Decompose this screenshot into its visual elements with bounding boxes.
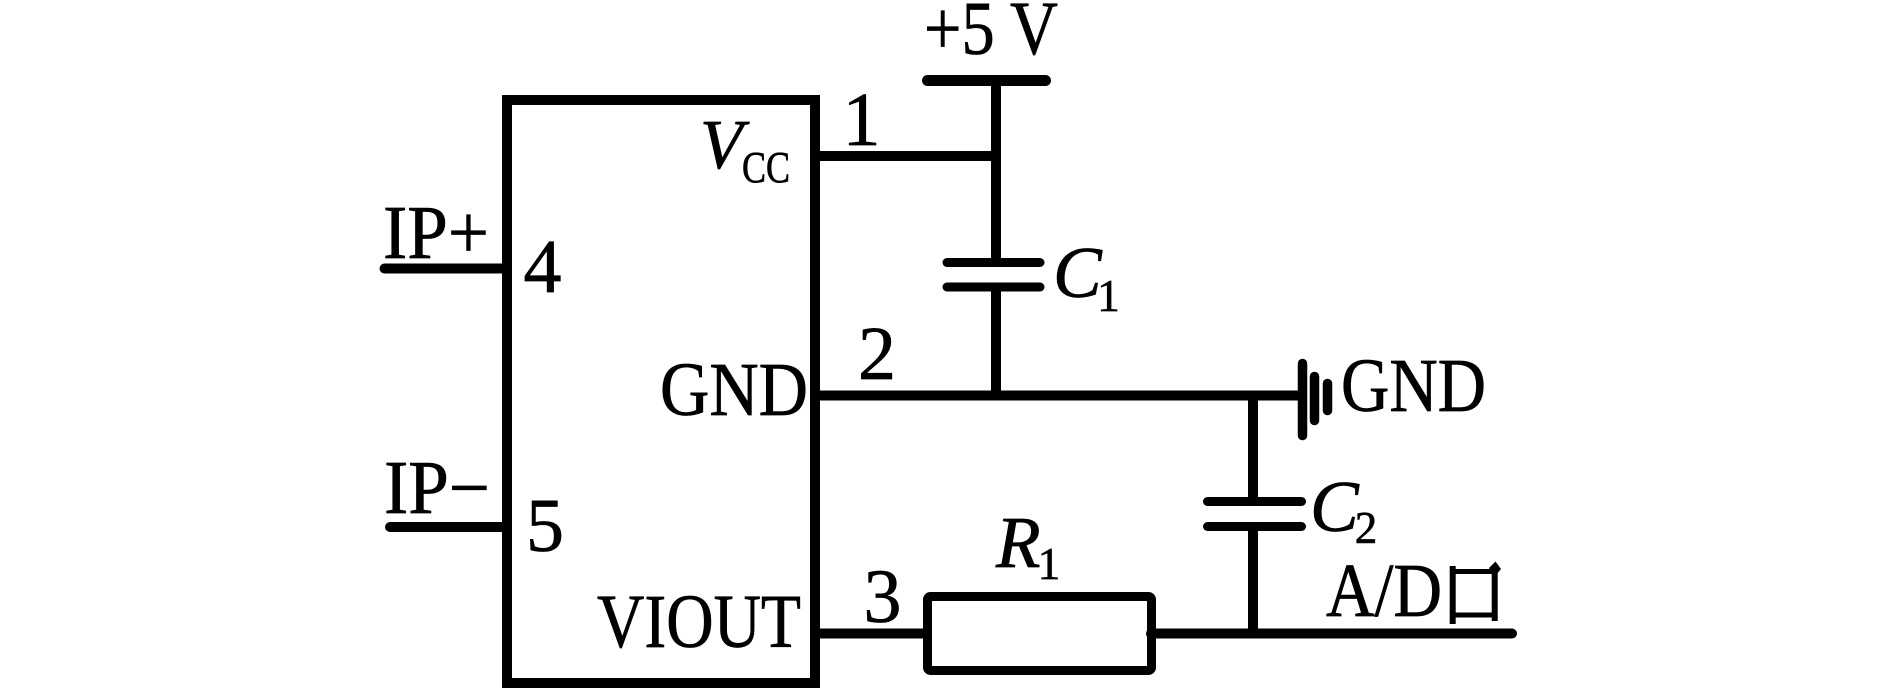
svg-text:GND: GND: [1341, 344, 1486, 428]
svg-text:GND: GND: [660, 348, 808, 432]
svg-text:+5 V: +5 V: [924, 0, 1058, 71]
svg-text:2: 2: [858, 312, 896, 396]
svg-text:4: 4: [524, 225, 562, 309]
svg-text:R: R: [995, 502, 1041, 583]
svg-text:IP−: IP−: [384, 446, 490, 530]
svg-text:1: 1: [843, 78, 881, 162]
svg-text:IP+: IP+: [383, 191, 489, 275]
svg-text:2: 2: [1355, 503, 1378, 553]
svg-text:1: 1: [1097, 271, 1120, 321]
svg-text:CC: CC: [742, 143, 790, 192]
svg-text:VIOUT: VIOUT: [597, 580, 801, 664]
svg-text:3: 3: [864, 555, 902, 639]
svg-text:C: C: [1053, 232, 1103, 313]
svg-text:C: C: [1310, 466, 1360, 547]
svg-text:5: 5: [526, 484, 564, 568]
svg-text:A/D: A/D: [1326, 549, 1442, 633]
svg-text:1: 1: [1038, 539, 1061, 589]
